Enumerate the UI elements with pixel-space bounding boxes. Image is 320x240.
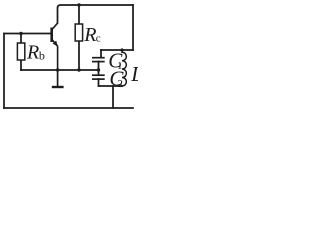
transistor Q1: [52, 23, 58, 70]
node R_c bottom junction: [77, 68, 80, 71]
svg-text:2: 2: [117, 78, 123, 90]
node inductor top junction: [120, 48, 123, 51]
wire C2 bottom tick: [98, 79, 100, 86]
wire tank top: [101, 49, 133, 51]
wire feedback emitter rail: [21, 69, 99, 71]
node emitter ground junction: [56, 68, 59, 71]
svg-text:c: c: [96, 32, 101, 44]
svg-text:R: R: [83, 24, 96, 46]
transistor base bar: [50, 28, 53, 43]
wire C1-C2 middle ticks: [98, 62, 100, 76]
wire R_b top lead: [20, 34, 22, 44]
inductor L: [122, 50, 126, 86]
capacitor C2: [92, 75, 105, 79]
capacitor C1: [92, 58, 105, 62]
wire top rail collector to right border: [58, 5, 134, 23]
wire R_b bottom lead: [20, 60, 22, 70]
wire right border: [132, 5, 134, 50]
svg-text:b: b: [39, 49, 45, 63]
resistor R_b: [17, 43, 24, 60]
node top rail junction: [77, 3, 80, 6]
transistor emitter lead: [52, 39, 58, 70]
svg-text:L: L: [130, 62, 138, 86]
transistor collector lead: [52, 23, 58, 30]
wire R_c bottom lead: [78, 41, 80, 70]
wire bottom rail: [4, 107, 133, 109]
wire tank bottom: [99, 85, 123, 87]
wire R_c top lead: [78, 5, 80, 24]
ground: [52, 70, 64, 87]
node base rail junction: [19, 32, 22, 35]
transistor emitter arrow: [53, 41, 58, 47]
wire left border: [3, 34, 5, 109]
wire tank to bottom rail: [112, 86, 114, 108]
wire base rail: [4, 33, 51, 35]
wire tick to C1 top: [100, 50, 102, 58]
resistor R_c: [75, 24, 82, 41]
svg-text:R: R: [26, 42, 39, 64]
node capacitor midpoint junction: [97, 68, 100, 71]
